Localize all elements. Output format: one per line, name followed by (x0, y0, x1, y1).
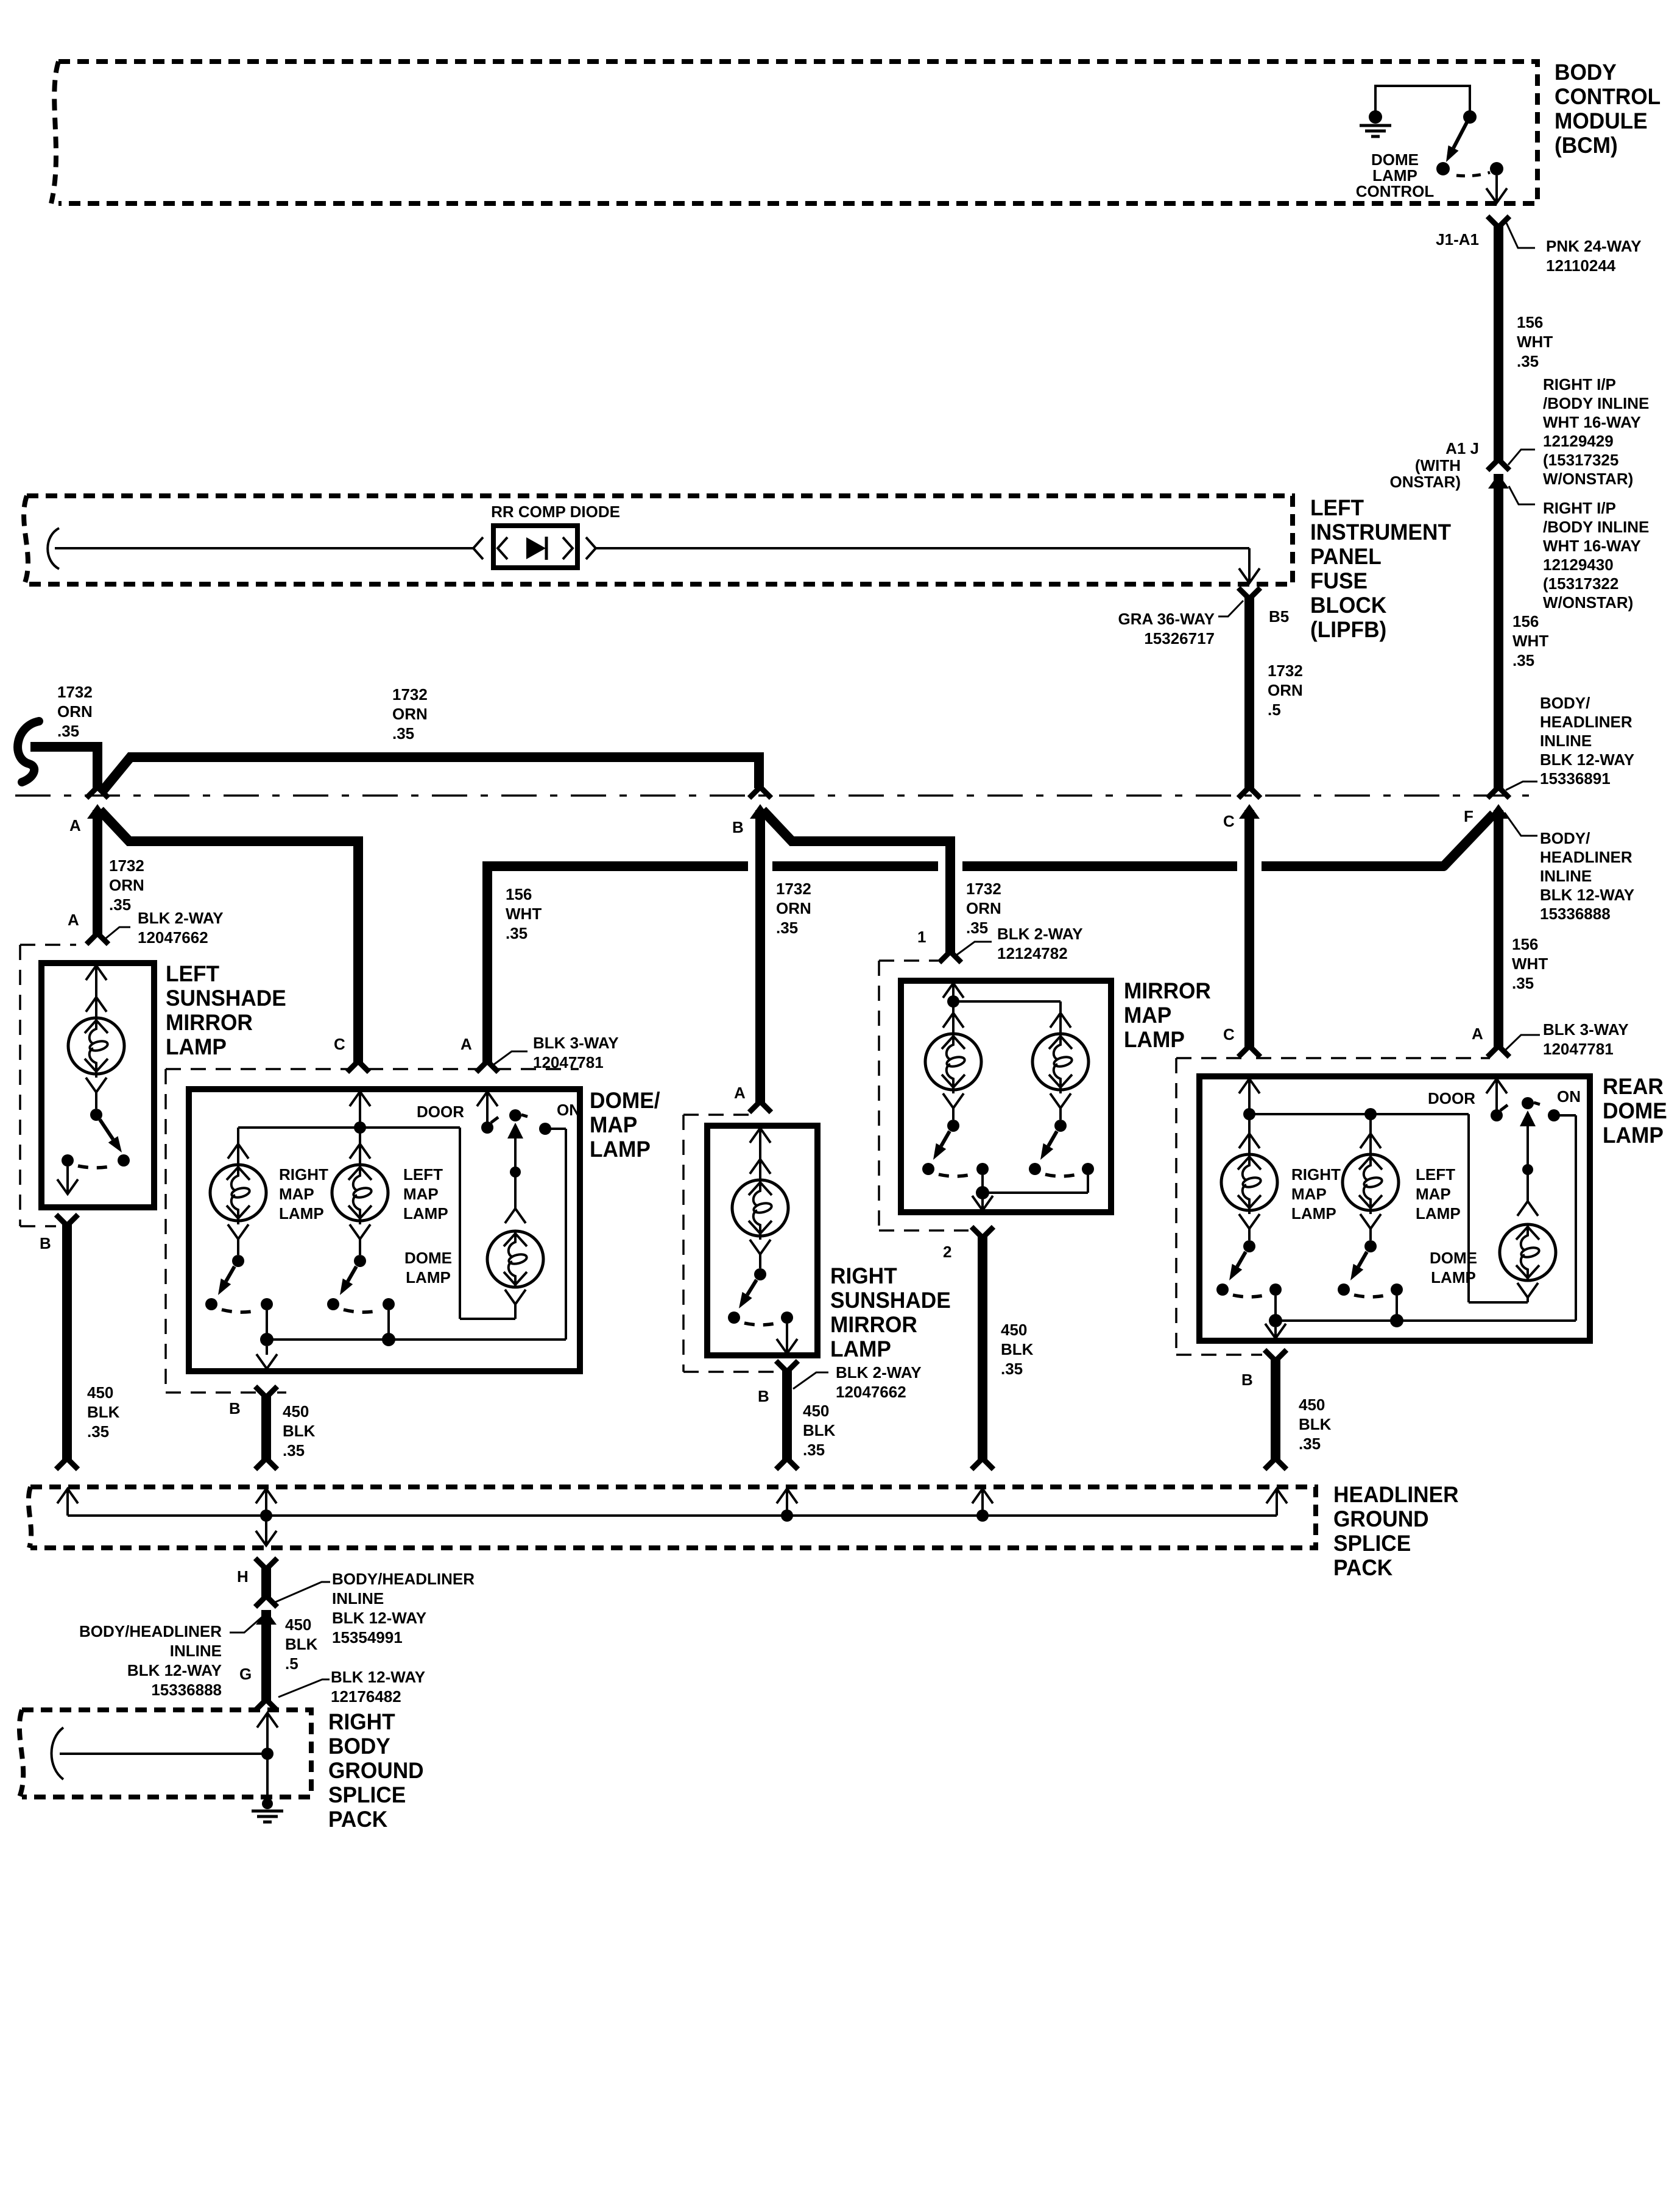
svg-text:.5: .5 (285, 1654, 298, 1673)
svg-text:BLK: BLK (1299, 1415, 1332, 1433)
svg-text:12047781: 12047781 (1543, 1040, 1614, 1058)
svg-text:MAP: MAP (1291, 1185, 1327, 1203)
splice entry w3 (777, 1489, 797, 1522)
svg-text:156: 156 (1517, 313, 1543, 331)
svg-text:G: G (239, 1665, 252, 1683)
lamp mirror map left (925, 1005, 981, 1108)
RR COMP DIODE (473, 503, 620, 568)
svg-text:LAMP: LAMP (1431, 1268, 1476, 1287)
wire 450 BLK .5 (G) (255, 1610, 277, 1710)
connector H BODY/HEADLINER INLINE 15354991 (237, 1558, 475, 1647)
lamp right map rear (1221, 1114, 1277, 1229)
rear dome label (1603, 1073, 1667, 1148)
svg-text:GROUND: GROUND (1333, 1506, 1429, 1531)
mirror map dashed enclosure (879, 961, 969, 1230)
mirror map exit (972, 1196, 993, 1210)
svg-text:1732: 1732 (1268, 662, 1303, 680)
svg-text:156: 156 (1512, 935, 1538, 953)
svg-text:450: 450 (1001, 1321, 1027, 1339)
svg-text:GRA 36-WAY: GRA 36-WAY (1118, 610, 1215, 628)
splice entry w1 (57, 1489, 78, 1516)
svg-text:DOME: DOME (1603, 1098, 1667, 1123)
dome/map C entry (350, 1092, 370, 1134)
svg-text:ORN: ORN (966, 899, 1001, 917)
svg-text:15336891: 15336891 (1540, 769, 1611, 788)
lamp dome rear (1500, 1201, 1556, 1302)
headliner ground splice pack box (29, 1487, 1316, 1548)
svg-text:REAR: REAR (1603, 1073, 1664, 1099)
svg-text:HEADLINER: HEADLINER (1540, 848, 1632, 866)
wire 450 BLK .35 w4 (972, 1234, 994, 1469)
svg-text:BLK: BLK (803, 1421, 836, 1439)
connector RIGHT I/P BODY INLINE 12129430 (1488, 474, 1649, 612)
lamp mirror map right (1032, 1001, 1089, 1108)
right map rear switch (1216, 1227, 1282, 1321)
wire 156 WHT .35 BCM segment (1488, 224, 1509, 470)
svg-text:450: 450 (803, 1402, 829, 1420)
mirror map entry (943, 983, 964, 1008)
svg-text:BLOCK: BLOCK (1310, 592, 1386, 618)
svg-text:BODY/: BODY/ (1540, 694, 1590, 712)
left instrument panel fuse block (LIPFB) box (24, 496, 1293, 584)
label 450 BLK .5 (285, 1615, 318, 1673)
wire 1732 ORN .5 upper (1238, 595, 1260, 798)
svg-text:MAP: MAP (1416, 1185, 1451, 1203)
svg-text:FUSE: FUSE (1310, 568, 1368, 593)
left sunshade entry (86, 966, 107, 1001)
svg-text:RIGHT: RIGHT (1291, 1165, 1341, 1184)
svg-text:H: H (237, 1567, 249, 1586)
mirror map lamp box (901, 981, 1111, 1212)
lamp dome front (487, 1209, 543, 1319)
svg-text:LAMP: LAMP (279, 1204, 324, 1223)
svg-text:.5: .5 (1268, 701, 1281, 719)
svg-text:MIRROR: MIRROR (830, 1312, 917, 1337)
svg-text:BODY: BODY (328, 1733, 390, 1759)
svg-text:LAMP: LAMP (1603, 1122, 1664, 1148)
svg-text:450: 450 (87, 1383, 113, 1402)
mirror map label (1124, 978, 1211, 1052)
svg-text:BLK 12-WAY: BLK 12-WAY (1540, 886, 1634, 904)
svg-text:W/ONSTAR): W/ONSTAR) (1543, 470, 1633, 488)
svg-text:12176482: 12176482 (331, 1687, 401, 1706)
svg-text:W/ONSTAR): W/ONSTAR) (1543, 593, 1633, 612)
svg-text:MODULE: MODULE (1555, 108, 1648, 133)
svg-text:RR COMP DIODE: RR COMP DIODE (491, 503, 620, 521)
svg-text:LAMP: LAMP (1124, 1026, 1185, 1052)
rear dome dashed enclosure (1176, 1058, 1490, 1355)
svg-text:15354991: 15354991 (332, 1628, 403, 1647)
svg-text:B5: B5 (1269, 607, 1289, 626)
dome/map ground bus (260, 1333, 566, 1346)
svg-text:RIGHT I/P: RIGHT I/P (1543, 375, 1616, 394)
svg-text:A1 J: A1 J (1445, 439, 1479, 457)
svg-text:PACK: PACK (1333, 1555, 1392, 1580)
connector BLK 2-WAY 12047662 left (68, 909, 224, 947)
svg-text:LAMP: LAMP (406, 1268, 451, 1287)
svg-text:LAMP: LAMP (1291, 1204, 1336, 1223)
svg-text:MAP: MAP (1124, 1002, 1171, 1028)
svg-text:.35: .35 (109, 895, 131, 914)
svg-text:INSTRUMENT: INSTRUMENT (1310, 519, 1451, 545)
splice entry w4 (972, 1489, 993, 1522)
svg-text:12110244: 12110244 (1546, 256, 1616, 275)
wire 1732 ORN .35 trunk (102, 757, 759, 791)
svg-text:CONTROL: CONTROL (1555, 83, 1661, 109)
ground right body (252, 1754, 283, 1822)
svg-text:.35: .35 (57, 722, 79, 740)
svg-text:B: B (758, 1387, 769, 1405)
svg-text:.35: .35 (392, 724, 414, 743)
label dome lamp front (404, 1249, 452, 1287)
rear dome exit (1265, 1324, 1286, 1338)
svg-text:PACK: PACK (328, 1806, 387, 1832)
right sunshade lamp box (707, 1126, 817, 1355)
label left map lamp rear (1416, 1165, 1461, 1223)
right body ground label (328, 1709, 424, 1832)
svg-text:.35: .35 (1512, 974, 1534, 992)
svg-text:156: 156 (506, 885, 532, 903)
svg-text:LEFT: LEFT (1416, 1165, 1455, 1184)
left sunshade lamp box (41, 963, 154, 1207)
wire 1732 ORN trunk start curl (18, 721, 39, 782)
wire LIPFB internal right (596, 548, 1260, 583)
label right map lamp front (279, 1165, 328, 1223)
svg-text:LEFT: LEFT (403, 1165, 443, 1184)
node C headliner inline (1223, 787, 1260, 830)
svg-text:(15317322: (15317322 (1543, 574, 1618, 593)
svg-text:PNK 24-WAY: PNK 24-WAY (1546, 237, 1642, 255)
svg-text:RIGHT: RIGHT (830, 1263, 897, 1288)
dome/map lamp box (189, 1089, 580, 1371)
svg-text:1732: 1732 (57, 683, 93, 701)
svg-text:RIGHT I/P: RIGHT I/P (1543, 499, 1616, 517)
svg-text:.35: .35 (87, 1422, 109, 1441)
svg-text:12047662: 12047662 (138, 928, 208, 947)
svg-text:2: 2 (943, 1243, 951, 1261)
svg-text:(LIPFB): (LIPFB) (1310, 616, 1386, 642)
svg-text:1732: 1732 (966, 880, 1001, 898)
svg-text:BLK 12-WAY: BLK 12-WAY (1540, 750, 1634, 769)
splice exit H (256, 1516, 277, 1545)
svg-text:RIGHT: RIGHT (328, 1709, 395, 1734)
svg-text:INLINE: INLINE (1540, 732, 1592, 750)
svg-text:BLK 3-WAY: BLK 3-WAY (533, 1034, 619, 1052)
svg-text:ORN: ORN (109, 876, 144, 894)
svg-text:A: A (1472, 1025, 1483, 1043)
right sunshade label (830, 1263, 951, 1361)
right sunshade dashed enclosure (683, 1115, 774, 1372)
label 156 WHT .35 rear (1512, 935, 1548, 992)
left sunshade dashed enclosure (20, 945, 76, 1226)
svg-text:A: A (68, 911, 79, 929)
rear dome C entry (1239, 1079, 1260, 1120)
svg-text:MIRROR: MIRROR (1124, 978, 1211, 1003)
svg-text:WHT: WHT (1512, 955, 1548, 973)
svg-text:LEFT: LEFT (1310, 495, 1364, 520)
rear door/on switch (1486, 1079, 1560, 1201)
left sunshade exit (57, 1167, 78, 1194)
label 1732 ORN .35 trunk (392, 685, 428, 743)
svg-text:MIRROR: MIRROR (166, 1009, 253, 1035)
right sunshade exit (777, 1324, 797, 1354)
label DOOR front (417, 1103, 464, 1121)
dome/map dashed enclosure (166, 1069, 579, 1393)
label BODY/HEADLINER INLINE 15336888 left (79, 1615, 264, 1699)
svg-text:ORN: ORN (392, 705, 428, 723)
svg-text:.35: .35 (966, 919, 988, 937)
svg-text:BLK 12-WAY: BLK 12-WAY (127, 1661, 222, 1679)
connector B right sunshade (758, 1361, 922, 1405)
svg-text:A: A (461, 1035, 472, 1053)
connector B left sunshade (40, 1215, 78, 1252)
wire 450 BLK .35 w5 (1265, 1357, 1286, 1469)
BCM label (1555, 59, 1661, 158)
left map rear switch (1338, 1227, 1403, 1321)
connector GRA 36-WAY 15326717 (B5) (1118, 588, 1290, 648)
svg-text:RIGHT: RIGHT (279, 1165, 328, 1184)
wire 1732 ORN .35 below A (93, 810, 102, 937)
rear dome feed bus (1249, 1108, 1528, 1302)
svg-text:DOOR: DOOR (417, 1103, 464, 1121)
svg-text:J1-A1: J1-A1 (1436, 230, 1479, 249)
right sunshade entry (750, 1128, 771, 1163)
wire 1732 ORN .35 to mirror map (763, 810, 950, 955)
svg-text:BLK 12-WAY: BLK 12-WAY (332, 1609, 426, 1627)
rear ON wire (1554, 1115, 1576, 1321)
connector A dome/map (461, 1035, 498, 1072)
lamp right map front (210, 1128, 266, 1239)
svg-text:1: 1 (917, 928, 926, 946)
svg-text:450: 450 (1299, 1396, 1325, 1414)
right body ground splice pack box (19, 1710, 311, 1797)
svg-text:1732: 1732 (776, 880, 811, 898)
wire 450 BLK .35 w1 (56, 1222, 78, 1469)
connector B rear dome (1241, 1350, 1286, 1389)
dome/map feed bus (238, 1128, 515, 1319)
rear dome lamp box (1199, 1076, 1590, 1341)
label 1732 ORN .35 mirror map (966, 880, 1001, 937)
svg-text:.35: .35 (283, 1441, 305, 1460)
connector BLK 3-WAY 12047781 rear (1472, 1020, 1629, 1058)
svg-text:BODY/: BODY/ (1540, 829, 1590, 847)
svg-text:BLK 3-WAY: BLK 3-WAY (1543, 1020, 1629, 1039)
connector C dome/map (334, 1035, 369, 1072)
svg-text:.35: .35 (803, 1441, 825, 1459)
svg-text:B: B (229, 1399, 241, 1417)
svg-text:BODY/HEADLINER: BODY/HEADLINER (79, 1622, 222, 1640)
node B headliner inline (732, 787, 771, 836)
svg-text:LEFT: LEFT (166, 961, 219, 986)
svg-text:ON: ON (557, 1101, 581, 1119)
svg-text:12047781: 12047781 (533, 1053, 604, 1071)
splice entry w5 (1266, 1489, 1287, 1516)
left map front switch (327, 1238, 395, 1340)
mirror map right switch (1029, 1107, 1094, 1176)
svg-text:BLK: BLK (1001, 1340, 1034, 1358)
lamp right sunshade bulb (732, 1159, 788, 1254)
svg-text:A: A (734, 1084, 746, 1102)
mirror map ground bus (976, 1175, 1088, 1199)
mirror map left switch (922, 1107, 989, 1176)
connector RIGHT I/P BODY INLINE 12129429 (1508, 375, 1649, 488)
wire 450 BLK .35 w3 (776, 1368, 798, 1469)
splice entry w2 (256, 1489, 277, 1522)
svg-text:BLK: BLK (283, 1422, 316, 1440)
svg-text:(WITH: (WITH (1415, 456, 1461, 475)
wire 1732 ORN .35 left segment (30, 747, 97, 788)
svg-text:DOME: DOME (404, 1249, 452, 1267)
label right map lamp rear (1291, 1165, 1341, 1223)
front door/on switch (477, 1092, 551, 1209)
label 156 WHT .35 dome/map (506, 885, 542, 942)
label A1 J WITH ONSTAR (1389, 439, 1479, 491)
svg-text:12129430: 12129430 (1543, 556, 1614, 574)
svg-text:450: 450 (285, 1615, 311, 1634)
label 1732 ORN .5 (1268, 662, 1303, 719)
connector BODY/HEADLINER INLINE 15336888 label right (1505, 813, 1634, 923)
svg-text:12047662: 12047662 (836, 1383, 906, 1401)
svg-text:SUNSHADE: SUNSHADE (166, 985, 286, 1011)
svg-text:SPLICE: SPLICE (328, 1782, 406, 1807)
svg-text:C: C (334, 1035, 345, 1053)
svg-text:SPLICE: SPLICE (1333, 1530, 1411, 1556)
ground inside BCM (1360, 110, 1391, 136)
wire 450 BLK .35 w2 (255, 1394, 277, 1469)
svg-text:BLK 12-WAY: BLK 12-WAY (331, 1668, 425, 1686)
connector A right sunshade (734, 1084, 771, 1112)
svg-text:BLK 2-WAY: BLK 2-WAY (836, 1363, 922, 1382)
svg-text:(BCM): (BCM) (1555, 132, 1618, 158)
svg-text:LAMP: LAMP (590, 1136, 651, 1162)
dome/map label (590, 1087, 660, 1162)
svg-text:GROUND: GROUND (328, 1757, 424, 1783)
svg-text:/BODY INLINE: /BODY INLINE (1543, 518, 1649, 536)
dome/map ON wire (545, 1129, 566, 1340)
svg-text:450: 450 (283, 1402, 309, 1421)
svg-text:.35: .35 (1517, 352, 1539, 370)
svg-text:HEADLINER: HEADLINER (1333, 1481, 1459, 1507)
label 450 BLK .35 w3 (803, 1402, 836, 1459)
svg-text:WHT 16-WAY: WHT 16-WAY (1543, 537, 1641, 555)
label C rear dome (1223, 1025, 1235, 1043)
right sunshade switch (728, 1253, 793, 1325)
label ON rear (1557, 1087, 1581, 1106)
svg-text:.35: .35 (1299, 1435, 1321, 1453)
svg-text:INLINE: INLINE (332, 1589, 384, 1608)
node A headliner inline (69, 787, 108, 835)
wire 156 WHT .35 to headliner inline (1488, 474, 1509, 798)
svg-text:ON: ON (1557, 1087, 1581, 1106)
LIPFB wire bracket (48, 528, 59, 569)
wire 1732 ORN .5 below C (1238, 810, 1260, 1057)
svg-text:1732: 1732 (109, 856, 144, 875)
right body entry (257, 1713, 278, 1760)
label 156 WHT .35 upper (1517, 313, 1553, 370)
svg-text:C: C (1223, 1025, 1235, 1043)
svg-text:.35: .35 (1001, 1360, 1023, 1378)
connector BLK 3-WAY 12047781 dome/map (493, 1034, 619, 1071)
label ON front (557, 1101, 581, 1119)
connector BODY/HEADLINER INLINE 15336891 label (1506, 694, 1634, 790)
svg-text:.35: .35 (506, 924, 528, 942)
label 450 BLK .35 w4 (1001, 1321, 1034, 1378)
right body ground bracket (52, 1728, 64, 1779)
svg-text:INLINE: INLINE (1540, 867, 1592, 885)
svg-text:ORN: ORN (57, 702, 93, 721)
wire 1732 ORN .35 to dome/map C (100, 810, 358, 1065)
svg-text:ORN: ORN (1268, 681, 1303, 699)
svg-text:WHT: WHT (1512, 632, 1548, 650)
svg-text:INLINE: INLINE (170, 1642, 222, 1660)
svg-text:C: C (1223, 812, 1235, 830)
label dome lamp rear (1430, 1249, 1477, 1287)
right body ground bus (60, 1753, 267, 1755)
svg-text:BODY: BODY (1555, 59, 1617, 85)
svg-text:.35: .35 (776, 919, 798, 937)
svg-text:WHT: WHT (1517, 333, 1553, 351)
wire 1732 ORN .35 below B (755, 810, 765, 1105)
lamp left map rear (1343, 1114, 1399, 1229)
svg-text:.35: .35 (1512, 651, 1534, 669)
svg-text:12129429: 12129429 (1543, 432, 1614, 450)
dome/map exit (256, 1346, 277, 1369)
label 1732 ORN .35 below A (109, 856, 144, 914)
connector B dome/map (229, 1386, 277, 1417)
svg-text:MAP: MAP (403, 1185, 439, 1203)
dome lamp control switch (1436, 110, 1503, 176)
svg-text:15336888: 15336888 (1540, 905, 1611, 923)
body control module (BCM) box (51, 62, 1537, 203)
label 1732 ORN .35 below B (776, 880, 811, 937)
svg-text:BODY/HEADLINER: BODY/HEADLINER (332, 1570, 475, 1588)
svg-text:/BODY INLINE: /BODY INLINE (1543, 394, 1649, 412)
svg-text:15326717: 15326717 (1144, 629, 1215, 648)
svg-text:DOME/: DOME/ (590, 1087, 660, 1113)
svg-text:A: A (69, 816, 81, 835)
wire LIPFB internal left (55, 547, 473, 549)
label 450 BLK .35 w2 (283, 1402, 316, 1460)
svg-text:DOOR: DOOR (1428, 1089, 1475, 1107)
mirror map feed bus (953, 1001, 1061, 1008)
svg-text:WHT: WHT (506, 905, 542, 923)
svg-text:BLK: BLK (87, 1403, 120, 1421)
svg-text:B: B (40, 1234, 51, 1252)
svg-text:F: F (1464, 807, 1474, 825)
svg-text:B: B (1241, 1371, 1253, 1389)
svg-text:LAMP: LAMP (166, 1034, 227, 1059)
svg-text:LAMP: LAMP (1416, 1204, 1461, 1223)
svg-text:CONTROL: CONTROL (1356, 182, 1435, 200)
lamp left map front (332, 1131, 388, 1239)
label 450 BLK .35 w5 (1299, 1396, 1332, 1453)
wire dome lamp control bracket (1375, 86, 1470, 113)
wire 156 WHT .35 horizontal (487, 814, 1494, 1065)
headliner splice bus (68, 1514, 1277, 1517)
svg-text:12124782: 12124782 (997, 944, 1068, 962)
connector 2 mirror map (943, 1227, 994, 1261)
wire BCM switch output (1486, 175, 1507, 203)
svg-text:BLK 2-WAY: BLK 2-WAY (138, 909, 224, 927)
svg-text:MAP: MAP (279, 1185, 314, 1203)
LIPFB label (1310, 495, 1451, 642)
body/headliner inline centerline (15, 794, 1529, 797)
svg-text:15336888: 15336888 (151, 1681, 222, 1699)
label 1732 ORN .35 far left (57, 683, 93, 740)
right map front switch (205, 1238, 273, 1340)
svg-text:BLK 2-WAY: BLK 2-WAY (997, 925, 1083, 943)
rear dome ground bus (1269, 1314, 1576, 1327)
